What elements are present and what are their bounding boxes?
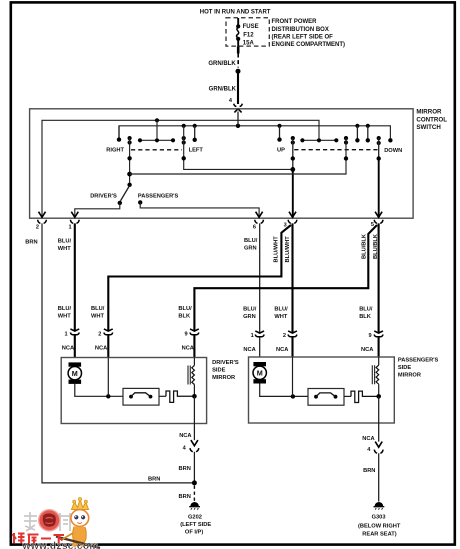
connector 2 NCA passenger [288,331,297,337]
wire down-switch left contact to right-wiper line [130,138,346,174]
circuit breaker passenger [308,389,344,406]
svg-text:6: 6 [253,225,256,231]
svg-text:1: 1 [68,224,71,230]
svg-text:MIRROR: MIRROR [416,109,442,116]
svg-text:DRIVER'S: DRIVER'S [212,360,239,366]
svg-text:UP: UP [277,147,285,153]
svg-text:BLU/: BLU/ [244,238,258,244]
pin 2 connector at switch [38,212,47,224]
pin 1 connector at switch [70,212,79,224]
svg-text:2: 2 [283,333,286,339]
node bus B taps [182,124,370,128]
wire BLU/GRN pin 6 to passenger mirror motor [259,223,261,357]
wire BRN from pin 2 to ground junction [42,223,193,483]
watermark dzsc.com [13,498,101,549]
svg-text:BLU/: BLU/ [274,306,288,312]
svg-text:BLU/WHT: BLU/WHT [274,236,280,263]
svg-text:G303: G303 [372,515,386,521]
svg-text:BLU/: BLU/ [243,306,257,312]
wire BLU/WHT pin 1 to driver mirror motor [74,223,76,357]
svg-text:BLU/: BLU/ [178,306,192,312]
node selector tap [127,172,132,177]
driver's side mirror box [61,358,206,424]
node wire2 junction passenger [291,394,295,398]
contact up-switch wiper head [291,136,295,140]
svg-text:G202: G202 [188,515,202,521]
contact down-switch terminals [356,126,358,139]
wire BLU/WHT pin 3 branch B to passenger mirror [291,223,293,357]
contact terminal up-switch feed [279,126,281,138]
svg-text:WHT: WHT [91,314,104,320]
svg-text:PASSENGER'S: PASSENGER'S [398,357,439,363]
svg-text:15A: 15A [243,41,255,47]
circuit breaker driver [123,388,159,405]
svg-text:BRN: BRN [25,239,37,245]
selector blade [121,186,130,201]
node up wiper output junction [290,167,295,172]
heater element driver [188,365,194,384]
wire heater leads passenger [378,357,380,396]
svg-text:NCA: NCA [62,346,74,352]
contact left-switch wiper head [182,136,186,140]
svg-text:NCA: NCA [95,346,107,352]
contact left-switch terminal [194,126,196,138]
wire driver mirror to ground exit [193,396,195,423]
svg-text:DRIVER'S: DRIVER'S [90,193,117,199]
wire bus B (feed bus) [119,126,390,139]
wire from connector 2 into box driver [107,358,109,397]
connector 9 NCA driver [190,329,199,335]
svg-text:HOT IN RUN AND START: HOT IN RUN AND START [200,9,271,15]
svg-text:RIGHT: RIGHT [106,148,124,154]
svg-text:DOWN: DOWN [384,148,402,154]
node up wiper pivot [291,156,295,160]
contact right-switch wiper head [128,136,132,140]
wire down wiper stem down to pin 5 [378,138,380,159]
node output junction driver [192,394,197,399]
svg-text:BLU/: BLU/ [359,306,373,312]
wire right-switch contact bar [140,139,173,141]
motor M driver [68,362,81,384]
pin 3 connector at switch [288,212,297,224]
linkage right-left (dashed) [131,149,182,151]
wire passenger's contact to pin 6 [140,202,259,217]
wire up wiper stem down to pin 3 [292,138,294,169]
svg-text:WHT: WHT [58,314,71,320]
wire passenger mirror to exit connector [378,423,380,442]
contact passenger's [138,200,142,204]
svg-text:GRN: GRN [244,246,257,252]
node down wiper pivot [377,156,381,160]
pin 4 connector driver ground [190,440,199,452]
wire breaker to resistor driver [159,395,166,397]
ground G303 [374,502,385,510]
svg-text:2: 2 [98,331,101,337]
svg-text:LEFT: LEFT [189,148,204,154]
connector 1 NCA driver [70,329,79,335]
wire bus A (ground bus) [42,120,319,216]
svg-text:REAR SEAT): REAR SEAT) [362,532,396,538]
svg-text:9: 9 [368,333,371,339]
heater element passenger [372,365,378,384]
contact driver's [118,201,122,205]
svg-text:M: M [72,369,78,378]
pin 6 connector at switch [255,212,264,224]
wire from connector 2 into box passenger [292,357,294,396]
svg-text:M: M [257,369,263,378]
wire driver mirror to exit connector [193,424,195,441]
svg-text:SIDE: SIDE [398,365,411,371]
wire left wiper stem [184,126,293,170]
contact down-switch bus-B end [388,138,392,142]
svg-text:www.dzsc.com: www.dzsc.com [22,541,99,549]
contact down-switch wiper head [377,136,381,140]
connector arrow into switch box [234,104,243,107]
resistor (square wave) passenger [351,391,377,402]
ground G202 [189,502,200,510]
svg-text:BLU/: BLU/ [58,306,72,312]
contact down-switch left head [344,136,348,140]
svg-text:BLU/BLK: BLU/BLK [373,233,379,259]
connector 2 NCA driver [104,329,113,335]
pin 5 connector at switch [374,212,383,224]
wire dashed to G202 [193,486,195,502]
wire passenger mirror to ground exit [378,396,380,423]
motor M passenger [253,362,266,384]
node left wiper pivot [182,156,186,160]
svg-text:(BELOW RIGHT: (BELOW RIGHT [358,524,401,530]
wire BRN driver ground [193,452,195,483]
svg-text:BRN: BRN [363,468,375,474]
wire breaker to resistor passenger [344,395,351,397]
wire right wiper stem [129,138,131,185]
svg-text:CONTROL: CONTROL [416,116,447,123]
svg-text:(LEFT SIDE: (LEFT SIDE [180,522,211,528]
wire BLU/BLK pin 5 branch A to driver mirror [194,225,377,358]
svg-text:BLK: BLK [178,314,191,320]
svg-text:2: 2 [36,224,39,230]
svg-text:1: 1 [251,333,254,339]
svg-text:ENGINE COMPARTMENT): ENGINE COMPARTMENT) [272,42,346,48]
node wire2 junction driver [106,394,110,398]
contact terminal right-switch feed [118,126,120,138]
node right wiper pivot [127,156,131,160]
pin 4 connector passenger ground [374,442,383,454]
wire BRN passenger ground [378,453,380,501]
svg-text:BRN: BRN [148,477,160,483]
wire BLU/WHT pin 3 branch A to driver mirror [108,225,291,358]
wire driver's contact to pin 1 [75,203,120,218]
svg-text:WHT: WHT [58,246,71,252]
linkage up-down (dashed) [294,149,377,151]
svg-text:BLK: BLK [359,314,372,320]
svg-text:9: 9 [184,331,187,337]
node selector blade top [127,183,131,187]
front power distribution box (dashed) [226,18,269,46]
wire feed into bus B [237,112,239,126]
node output junction passenger [376,394,381,399]
wire bus A tap to contact row [156,120,158,138]
svg-text:NCA: NCA [243,347,255,353]
svg-text:F12: F12 [243,33,254,39]
node bus A tap [155,118,159,122]
svg-text:GRN/BLK: GRN/BLK [208,61,236,67]
wire BLU/BLK pin 5 branch B to passenger mirror [378,223,380,357]
node BRN ground junction [192,480,197,485]
svg-text:SIDE: SIDE [212,368,225,374]
svg-text:(REAR LEFT SIDE OF: (REAR LEFT SIDE OF [272,35,334,41]
svg-text:NCA: NCA [276,347,288,353]
wire heater leads driver [193,358,195,397]
node feed junction [236,124,240,128]
svg-text:BRN: BRN [179,494,191,500]
mirror control switch box [30,109,414,218]
svg-text:MIRROR: MIRROR [212,375,235,381]
svg-text:OF I/P): OF I/P) [185,529,203,535]
svg-text:PASSENGER'S: PASSENGER'S [138,193,179,199]
wire GRN/BLK from fuse to switch [236,46,241,104]
svg-text:FRONT POWER: FRONT POWER [272,19,318,25]
connector 1 NCA passenger [255,331,264,337]
svg-text:FUSE: FUSE [243,24,259,30]
svg-text:GRN: GRN [243,314,256,320]
svg-text:GRN/BLK: GRN/BLK [209,86,237,92]
svg-text:SWITCH: SWITCH [416,124,441,131]
passenger's side mirror box [249,357,395,423]
svg-text:NCA: NCA [362,436,374,442]
svg-text:NCA: NCA [182,346,194,352]
connector 9 NCA passenger [374,331,383,337]
wire motor output passenger [260,384,308,397]
node down left contact pivot [344,156,348,160]
svg-text:BLU/: BLU/ [58,238,72,244]
svg-text:1: 1 [64,331,67,337]
resistor (square wave) driver [166,391,193,402]
svg-text:WHT: WHT [274,314,287,320]
svg-text:BLU/WHT: BLU/WHT [285,236,291,263]
svg-text:NCA: NCA [179,433,191,439]
svg-text:BLU/: BLU/ [91,306,105,312]
wire up-switch contact bar [302,139,336,141]
svg-text:BLU/BLK: BLU/BLK [361,233,367,259]
wire motor output driver [75,384,123,396]
svg-text:MIRROR: MIRROR [398,373,421,379]
svg-text:DISTRIBUTION BOX: DISTRIBUTION BOX [272,27,329,33]
fuse F12 15A [236,18,240,46]
svg-text:NCA: NCA [361,347,373,353]
svg-text:BRN: BRN [179,466,191,472]
